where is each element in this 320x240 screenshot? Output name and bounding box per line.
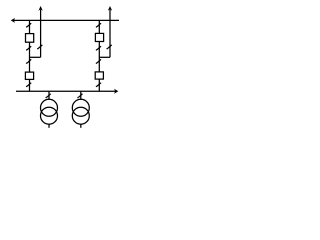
transformer T1 primary winding: [41, 99, 58, 116]
feeder 1 main wire: [29, 20, 31, 91]
feeder 1 junction wire: [30, 56, 41, 58]
feeder 1 up arrowhead: [38, 6, 42, 11]
feeder 1 switch S5: [27, 83, 31, 86]
transformer T1 secondary winding: [41, 107, 58, 124]
feeder 2 switch S7: [97, 46, 101, 49]
transformer T1 bottom stub: [48, 124, 50, 128]
feeder 2 switch S6: [97, 23, 101, 26]
feeder 2 junction wire: [99, 56, 110, 58]
transformer T2 secondary winding: [72, 107, 89, 124]
bottom busbar right arrowhead: [114, 89, 118, 94]
top busbar: [14, 19, 120, 21]
bottom busbar: [16, 90, 116, 92]
feeder 1 fuse box F1: [26, 34, 34, 43]
feeder 1 switch S1: [27, 23, 31, 26]
transformer T2 bottom stub: [80, 124, 82, 128]
feeder 2 bypass switch S8: [108, 45, 112, 48]
feeder 2 switch S10: [97, 83, 101, 86]
feeder 1 bypass wire: [40, 10, 42, 58]
feeder 2 up arrowhead: [108, 6, 112, 11]
feeder 1 switch S2: [27, 46, 31, 49]
feeder 2 fuse box F4: [95, 72, 103, 79]
feeder 2 main wire: [98, 20, 100, 91]
feeder 2 bypass wire: [109, 10, 111, 58]
feeder 1 fuse box F2: [25, 72, 33, 79]
transformer T2 lead: [80, 91, 82, 100]
feeder 2 fuse box F3: [95, 33, 103, 41]
top busbar left arrowhead: [11, 18, 15, 23]
transformer T2 switch: [79, 94, 83, 97]
transformer T1 lead: [48, 91, 50, 100]
feeder 2 switch S9: [97, 59, 101, 62]
feeder 1 bypass switch S3: [38, 45, 42, 48]
feeder 1 switch S4: [27, 59, 31, 62]
transformer T1 switch: [47, 94, 51, 97]
transformer T2 primary winding: [72, 99, 89, 116]
